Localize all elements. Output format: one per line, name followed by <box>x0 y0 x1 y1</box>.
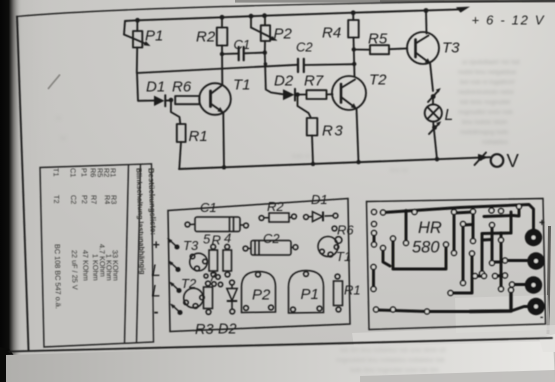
node R4 rail <box>351 10 356 15</box>
svg-text:nsdsl bnu neigatdue: nsdsl bnu neigatdue <box>458 69 517 76</box>
svg-text:R7: R7 <box>89 195 98 205</box>
svg-text:R4: R4 <box>103 195 112 205</box>
faint show-through text right of schematic <box>458 59 520 146</box>
resistor R5 vertical <box>209 244 218 276</box>
svg-text:4: 4 <box>224 231 231 246</box>
faint show-through bottom <box>336 347 446 374</box>
pcb outline <box>367 199 546 330</box>
faint marks middle <box>56 116 408 174</box>
trace link v5-v6 <box>492 261 501 264</box>
svg-text:T2: T2 <box>181 276 197 291</box>
svg-text:580: 580 <box>412 239 440 257</box>
wire +V top rail <box>125 9 459 21</box>
wire R2 top <box>221 17 223 27</box>
wire T2 collector up <box>354 38 355 77</box>
svg-text:bsl nsb ni tsgatlroV: bsl nsb ni tsgatlroV <box>460 79 516 86</box>
node P1 top junction <box>135 18 140 23</box>
wire R3 bottom <box>312 136 313 164</box>
connector tick below lamp <box>429 121 441 134</box>
wire T3 emitter to lamp <box>430 63 433 92</box>
wire lamp to 0V <box>434 130 437 159</box>
svg-text:D1: D1 <box>311 192 328 207</box>
svg-text:tsdo ni: tsdo ni <box>292 154 310 160</box>
svg-text:tsb bnis nsgnutiel: tsb bnis nsgnutiel <box>460 99 511 106</box>
svg-text:D1: D1 <box>146 79 165 96</box>
wire T2 emitter down <box>357 109 359 163</box>
trace to big pad 2 <box>505 259 528 262</box>
svg-text:tsb tim bnu tstlatdoz tsb snis: tsb tim bnu tstlatdoz tsb snis tdoin izt <box>340 347 446 354</box>
trace pads row pair b <box>495 274 505 277</box>
light zone right of boards <box>352 325 555 347</box>
resistor R3 <box>307 118 318 136</box>
input tick L2 <box>169 282 181 293</box>
big pad 3 <box>525 276 542 293</box>
trace bottom right thick <box>470 291 511 312</box>
svg-text:R3: R3 <box>322 123 344 140</box>
bottom edge darker strip <box>360 370 555 382</box>
wire P1 bottom <box>136 48 138 74</box>
resistor R6 standing <box>332 226 342 243</box>
wire T3 collector up <box>425 11 428 34</box>
svg-text:ni: ni <box>56 116 61 122</box>
svg-text:T2: T2 <box>52 195 61 204</box>
transistor T2 <box>184 288 205 308</box>
trace right v2 <box>462 225 465 282</box>
svg-text:R6: R6 <box>89 168 98 178</box>
big pad 2 <box>527 252 544 269</box>
resistor R4 vertical <box>223 244 232 276</box>
transistor T3 <box>407 32 439 64</box>
svg-text:nednintsvtsdo nelst: nednintsvtsdo nelst <box>458 89 514 96</box>
trace top right corner stub <box>513 208 519 216</box>
input tick + <box>167 238 179 249</box>
svg-text:R1: R1 <box>189 128 208 145</box>
resistor R7 <box>298 90 333 99</box>
input tick L1 <box>168 261 180 272</box>
diode D1 body <box>304 212 338 222</box>
potentiometer P1 <box>124 20 151 47</box>
trace link v1-v3 <box>454 212 473 213</box>
node D2/R7/R3 <box>295 92 299 96</box>
resistor R4 <box>348 20 359 38</box>
top page edge <box>235 0 555 3</box>
node T3 rail <box>424 8 429 13</box>
trace left pair 3 <box>372 268 375 288</box>
wire down to D1 <box>137 73 154 101</box>
trace stub left <box>383 250 390 267</box>
svg-text:nsdstlnsgsg tsdo: nsdstlnsgsg tsdo <box>460 129 509 136</box>
trace to big pad 4 <box>511 307 530 312</box>
frame left border <box>17 17 29 351</box>
svg-text:HR: HR <box>418 219 442 237</box>
frame top rule <box>17 1 555 17</box>
placement labels <box>152 192 361 338</box>
svg-text:R: R <box>212 233 221 248</box>
svg-text:R1: R1 <box>344 283 361 298</box>
svg-text:T1: T1 <box>233 77 251 94</box>
svg-text:C2: C2 <box>263 231 280 246</box>
svg-text:nsgnudlsl snisl nsb: nsgnudlsl snisl nsb <box>458 109 513 116</box>
capacitor C2 <box>298 59 354 72</box>
svg-text:R6: R6 <box>172 79 192 96</box>
+V rail arrowhead <box>456 7 470 13</box>
lamp L <box>425 98 442 127</box>
svg-text:nstlatdos: nstlatdos <box>482 139 509 146</box>
trace right v5 <box>491 226 494 262</box>
trace right v3b <box>452 255 472 293</box>
row R1 R3 33 KOhm <box>109 168 121 281</box>
trace left pair 2 <box>373 234 376 245</box>
row R2 R4 1 KOhm <box>102 168 114 281</box>
capacitor C1 <box>222 47 265 60</box>
svg-text:R4: R4 <box>322 25 341 42</box>
book spine dark band <box>0 0 23 382</box>
node P2 rail junction <box>262 13 267 18</box>
node D1/R6/R1 <box>169 98 174 103</box>
wire to R1 <box>171 100 180 124</box>
svg-text:tsdo bnu nsgnutiel snisl tsb t: tsdo bnu nsgnutiel snisl tsb tim <box>350 367 439 374</box>
node C1 left <box>220 52 224 56</box>
trace stub h right <box>482 238 492 241</box>
trace to big pad 3 <box>512 283 526 286</box>
svg-text:P2: P2 <box>252 287 271 304</box>
svg-text:P1: P1 <box>80 168 89 177</box>
trace right v6 <box>500 241 503 288</box>
svg-text:C1: C1 <box>234 37 251 52</box>
resistor R1 <box>177 124 186 142</box>
diode D2 vertical <box>227 280 237 314</box>
row P1 P2 47 KOhm <box>80 168 91 281</box>
board outline <box>168 199 350 332</box>
svg-text:P1: P1 <box>145 28 163 45</box>
svg-text:R7: R7 <box>304 73 324 90</box>
svg-text:C1: C1 <box>200 200 217 215</box>
row R5 4.7 KOhm <box>96 168 108 277</box>
trace right h233 <box>482 232 511 235</box>
big pad 4 <box>527 298 544 315</box>
trace top rail to + pad <box>383 205 534 230</box>
big pad 1 + <box>525 229 542 246</box>
svg-text:T3: T3 <box>183 238 199 253</box>
transistor T1 <box>199 83 231 115</box>
wire node A to C2 (T1 base net) <box>137 65 297 73</box>
node P2 wiper rail junction <box>249 14 254 19</box>
resistor R5 <box>354 45 408 54</box>
node T2 emitter/0V <box>356 160 360 164</box>
svg-text:1 KOhm: 1 KOhm <box>91 254 101 281</box>
svg-text:C2: C2 <box>296 40 313 55</box>
transistor T3 <box>190 253 208 271</box>
bottom-left black blob <box>0 347 26 382</box>
svg-text:BC 108 BC 547 o.ä.: BC 108 BC 547 o.ä. <box>53 244 63 309</box>
wire R4 top <box>352 13 354 20</box>
svg-text:+: + <box>539 218 545 229</box>
connector tick 0V terminal <box>475 153 489 166</box>
trace pads row pair a <box>475 275 484 278</box>
resistor R2 <box>217 28 228 46</box>
trace right v1 <box>453 213 456 252</box>
resistor R6 <box>175 96 199 104</box>
svg-text:R3: R3 <box>195 322 214 338</box>
input tick minus <box>170 304 182 315</box>
node R2 rail <box>220 15 225 20</box>
svg-text:R2: R2 <box>196 29 216 46</box>
wire down to D2 <box>265 53 283 95</box>
svg-text:D2: D2 <box>218 322 237 338</box>
frame bottom border <box>9 338 552 352</box>
svg-text:C1: C1 <box>69 168 78 177</box>
diode D1 <box>154 95 171 106</box>
wire P2 bottom <box>264 41 266 53</box>
pencil mark <box>48 75 60 90</box>
svg-text:P1: P1 <box>301 286 319 303</box>
trace link v2 top <box>463 223 473 226</box>
svg-text:D2: D2 <box>274 73 294 90</box>
svg-text:-: - <box>540 312 543 323</box>
svg-text:+ 6 - 12 V: + 6 - 12 V <box>472 13 546 28</box>
potentiometer P2 outline <box>242 272 276 313</box>
svg-text:5: 5 <box>203 232 211 247</box>
capacitor C1 body <box>185 217 248 232</box>
svg-text:V: V <box>507 150 520 171</box>
node P2 bottom / C1 / D2 <box>263 50 267 54</box>
svg-text:P2: P2 <box>274 26 293 43</box>
connector tick above lamp <box>428 88 441 102</box>
svg-text:tsl: tsl <box>60 136 66 142</box>
svg-text:L: L <box>152 283 161 301</box>
resistor R1 vertical <box>334 274 343 312</box>
node T1 emitter/0V <box>222 165 226 169</box>
pcb pads <box>371 204 522 314</box>
svg-text:+: + <box>153 238 160 252</box>
svg-text:22 uF / 25 V: 22 uF / 25 V <box>70 250 80 290</box>
potentiometer P2 <box>251 16 278 41</box>
svg-text:-: - <box>154 304 159 321</box>
svg-text:7: 7 <box>209 270 217 285</box>
wire to R3 <box>298 95 311 117</box>
diode D2 <box>283 89 298 101</box>
svg-text:bnu tsdoiz tdoin: bnu tsdoiz tdoin <box>462 119 508 126</box>
potentiometer P1 outline <box>289 271 324 314</box>
trace right v4 <box>481 234 484 273</box>
resistor R2 body <box>259 213 296 222</box>
trace vertical from top rail <box>405 211 408 242</box>
transistor T1 <box>318 237 339 257</box>
svg-text:C2: C2 <box>69 195 78 204</box>
svg-text:ui zpulultaaV niz lsd: ui zpulultaaV niz lsd <box>462 59 520 66</box>
wire T1 collector <box>221 46 223 86</box>
node R5 branch <box>352 47 356 51</box>
node C2 right <box>352 62 356 66</box>
svg-text:T1: T1 <box>52 168 61 177</box>
svg-text:L: L <box>152 262 161 280</box>
svg-text:R6: R6 <box>337 223 354 238</box>
wire R1 bottom <box>179 142 181 169</box>
trace right v3a <box>472 212 475 240</box>
wire T1 emitter down <box>222 113 225 168</box>
row R6 R7 1 KOhm <box>89 168 101 281</box>
bottom page area below frame <box>6 339 555 382</box>
node W1 crossing <box>264 62 268 66</box>
wire 0V rail <box>179 157 490 169</box>
svg-text:T1: T1 <box>336 249 351 264</box>
svg-text:T2: T2 <box>369 72 387 89</box>
svg-text:P2: P2 <box>80 195 89 204</box>
resistor R3 vertical <box>204 281 213 314</box>
row C1 C2 22uF <box>69 168 80 290</box>
table border <box>40 164 154 347</box>
svg-text:T3: T3 <box>442 40 460 57</box>
resistor R7 standing <box>204 274 223 287</box>
svg-text:47 KOhm: 47 KOhm <box>81 250 91 281</box>
node R3/0V <box>311 162 315 166</box>
svg-text:L: L <box>445 107 454 124</box>
svg-text:R2: R2 <box>267 199 284 214</box>
node lamp/0V <box>435 157 439 161</box>
trace mid U-shape <box>393 240 446 269</box>
schematic labels <box>145 13 545 172</box>
row T1 T2 BC108 <box>52 168 63 309</box>
svg-text:R5: R5 <box>368 31 388 48</box>
svg-text:nsgnutdoil bnu nstlatdos nstla: nsgnutdoil bnu nstlatdos nstlatdoz tsb <box>336 357 445 364</box>
capacitor C2 body <box>243 241 298 256</box>
right page edge line <box>547 226 552 334</box>
trace bottom long <box>376 310 470 312</box>
trace right h216 <box>484 216 513 217</box>
0V terminal circle <box>491 154 504 167</box>
transistor T2 <box>332 76 366 110</box>
svg-text:bnu tsl: bnu tsl <box>390 168 408 174</box>
